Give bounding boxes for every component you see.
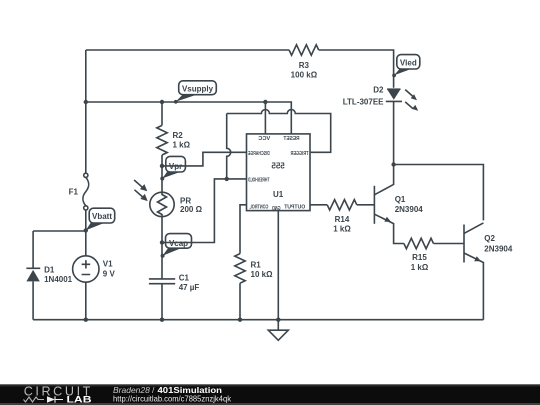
transistor Q1 base bar: [373, 186, 375, 224]
svg-text:47 µF: 47 µF: [179, 283, 200, 292]
svg-text:LTL-307EE: LTL-307EE: [343, 98, 384, 107]
transistor Q1 collector and wire up to node Vled net junction: [374, 165, 393, 195]
wire V1 minus terminal to bottom rail: [85, 282, 87, 320]
junction D2 cathode / Q1 collector / Q2 collector: [391, 162, 395, 166]
svg-text:DISCHARGE: DISCHARGE: [248, 151, 270, 157]
svg-text:D2: D2: [373, 85, 384, 94]
resistor R14: [327, 200, 357, 210]
svg-text:LAB: LAB: [67, 395, 92, 405]
svg-text:Vpr: Vpr: [169, 162, 182, 171]
svg-text:100 kΩ: 100 kΩ: [291, 71, 318, 80]
wire Vsupply rail to R2 top lead: [161, 102, 163, 125]
svg-text:1N4001: 1N4001: [44, 275, 73, 284]
svg-text:CONTROL: CONTROL: [249, 204, 269, 210]
wire D2 cathode down to junction with Q1 collector: [393, 101, 395, 164]
junction U1 VCC stub on Vsupply rail: [263, 100, 267, 104]
voltage source V1: [73, 256, 99, 282]
svg-text:D1: D1: [44, 266, 55, 275]
junction C1 on bottom rail: [160, 318, 164, 322]
svg-text:Vled: Vled: [400, 58, 417, 67]
svg-text:2N3904: 2N3904: [395, 205, 424, 214]
svg-text:OUTPUT: OUTPUT: [283, 204, 305, 210]
svg-text:Vsupply: Vsupply: [182, 85, 214, 94]
junction R1 on bottom rail: [238, 318, 242, 322]
resistor R15: [404, 238, 434, 248]
LED D2 cathode bar: [386, 100, 402, 102]
svg-text:TRIGGER: TRIGGER: [290, 151, 308, 157]
capacitor C1: [149, 279, 175, 284]
diode D1: [26, 267, 40, 269]
svg-text:2N3904: 2N3904: [484, 244, 513, 253]
node Vpr flag box: [166, 156, 186, 172]
wire R15 right lead to Q2 base: [434, 243, 465, 245]
Vpr flag tail and anchor dot: [162, 172, 180, 178]
LED D2 anode triangle: [387, 88, 400, 90]
junction R2 top on Vsupply rail: [160, 100, 164, 104]
junction node Vcap: [160, 240, 164, 244]
resistor R1: [235, 254, 245, 284]
svg-text:PR: PR: [180, 196, 191, 205]
Vled flag tail and anchor dot: [394, 69, 411, 75]
svg-text:R15: R15: [412, 253, 427, 262]
wire U1 OUTPUT pin to R14 left lead: [310, 204, 327, 206]
svg-text:Q1: Q1: [395, 195, 406, 204]
svg-text:VCC: VCC: [258, 136, 270, 142]
PR light arrow 2: [135, 190, 145, 199]
svg-text:Vbatt: Vbatt: [92, 212, 112, 221]
transistor Q2 collector diagonal: [464, 223, 483, 234]
LED D2 emission arrow 1: [405, 90, 412, 97]
node Vbatt flag box: [89, 208, 115, 223]
svg-text:C1: C1: [179, 274, 190, 283]
svg-text:1 kΩ: 1 kΩ: [333, 225, 351, 234]
PR light arrow 1: [134, 180, 144, 189]
svg-text:R14: R14: [335, 215, 350, 224]
junction V1 minus on bottom rail: [84, 318, 88, 322]
wire C1 bottom plate to bottom rail: [161, 284, 163, 320]
junction node Vpr: [160, 164, 164, 168]
svg-text:U1: U1: [273, 190, 284, 199]
svg-text:GND: GND: [272, 206, 281, 212]
svg-text:200 Ω: 200 Ω: [180, 205, 203, 214]
svg-text:F1: F1: [69, 188, 79, 197]
wire TRIGGER loop vertical with hop over DISCHARGE wire: [227, 114, 231, 179]
svg-text:RESET: RESET: [283, 136, 300, 142]
transistor Q2 emitter with arrow, wire to bottom rail: [464, 253, 483, 320]
svg-text:R1: R1: [251, 261, 262, 270]
svg-text:10 kΩ: 10 kΩ: [251, 270, 274, 279]
wire U1 GND pin to bottom rail: [277, 211, 279, 320]
wire Vsupply rail to U1 RESET pin: [86, 102, 291, 134]
svg-text:Vcap: Vcap: [169, 239, 188, 248]
junction TRIGGER loop on THRESHOLD wire: [225, 177, 229, 181]
wire R14 right lead to Q1 base: [357, 204, 375, 206]
wire left vertical from top rail down to fuse F1: [85, 50, 87, 173]
svg-text:R2: R2: [173, 131, 184, 140]
IC U1 555 timer body: [247, 134, 311, 211]
wire top rail from left corner to R3: [86, 49, 289, 51]
wire node Vbatt to D1 cathode branch: [33, 230, 86, 232]
node Vsupply flag box: [179, 81, 217, 95]
photoresistor PR: [150, 192, 174, 216]
wire TRIGGER loop horizontal with hops over VCC and RESET stubs: [227, 110, 331, 153]
svg-text:Q2: Q2: [484, 234, 495, 243]
svg-text:9 V: 9 V: [103, 269, 116, 278]
junction node Vbatt: [84, 228, 88, 232]
footer logo resistor doodle: [24, 397, 45, 402]
footer bar: [0, 384, 540, 405]
wire PR bottom to C1 top plate through node Vcap: [161, 217, 163, 279]
svg-text:1 kΩ: 1 kΩ: [411, 263, 429, 272]
fuse F1: [84, 173, 88, 177]
junction left rail x Vsupply rail: [84, 100, 88, 104]
svg-text:R3: R3: [299, 61, 310, 70]
wire bottom ground rail: [33, 319, 483, 321]
node Vcap flag box: [166, 234, 192, 249]
LED D2 emission arrow 2: [405, 102, 413, 109]
wire R2 bottom lead to PR top through node Vpr: [161, 155, 163, 192]
resistor R3: [289, 45, 319, 55]
svg-text:V1: V1: [103, 260, 113, 269]
wire junction below D2 across to Q2 collector: [394, 165, 484, 221]
footer logo diode doodle: [47, 396, 55, 402]
svg-text:1 kΩ: 1 kΩ: [173, 140, 191, 149]
wire node Vbatt down to D1 cathode: [32, 231, 34, 268]
node Vled flag box: [397, 55, 420, 69]
Vcap flag tail and anchor dot: [163, 248, 182, 256]
wire node Vpr to U1 DISCHARGE pin: [162, 152, 247, 166]
junction ground on bottom rail: [276, 318, 280, 322]
wire U1 CONTROL pin to R1 top lead: [240, 205, 247, 254]
wire D1 anode to bottom rail: [32, 281, 34, 319]
svg-text:555: 555: [271, 162, 285, 171]
svg-text:http://circuitlab.com/c7885znz: http://circuitlab.com/c7885znzjk4qk: [113, 394, 232, 404]
transistor Q2 base bar: [463, 225, 465, 263]
wire top rail from R3 to D2 anode: [319, 50, 394, 88]
wire fuse F1 to V1 plus terminal through node Vbatt: [85, 210, 87, 256]
svg-text:THRESHOLD: THRESHOLD: [248, 178, 270, 184]
Vsupply flag tail and anchor dot: [176, 95, 197, 102]
resistor R2: [157, 125, 167, 155]
wire R1 bottom lead to bottom rail: [239, 283, 241, 320]
wire U1 THRESHOLD pin to node Vcap: [162, 179, 247, 243]
transistor Q1 emitter with arrow, wire to R15 left lead: [374, 214, 404, 243]
ground: [277, 320, 279, 331]
wire U1 VCC pin stub to Vsupply rail: [264, 102, 266, 134]
Vbatt flag tail: [86, 223, 104, 230]
